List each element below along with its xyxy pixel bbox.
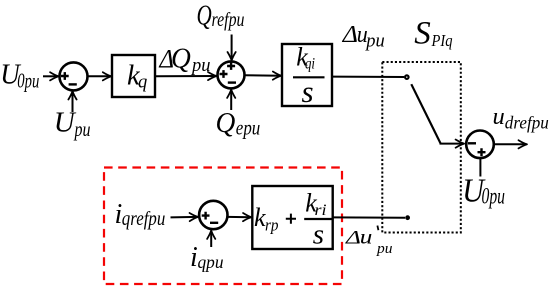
node Qepu label	[216, 107, 261, 140]
node iqpu label	[190, 242, 224, 273]
wire kq to summing junction S2, node dQpu	[156, 75, 217, 77]
svg-text:epu: epu	[236, 118, 260, 140]
node SPIq label	[414, 16, 453, 52]
svg-text:rp: rp	[265, 216, 279, 235]
node udrefpu label	[493, 103, 550, 133]
wire Upu feedback arrow into S1	[72, 92, 74, 113]
svg-text:0pu: 0pu	[17, 69, 39, 93]
svg-text:pu: pu	[364, 31, 384, 52]
S2 minus sign	[228, 81, 236, 83]
svg-text:s: s	[313, 219, 324, 251]
wire U0pu input arrow into summing junction S1	[43, 75, 58, 77]
node Upu label	[54, 107, 91, 141]
wire kqi/s to switch node A, node dupu	[333, 76, 405, 78]
svg-text:qpu: qpu	[198, 252, 224, 272]
svg-text:pu: pu	[376, 241, 393, 257]
switch blade wire	[411, 84, 440, 143]
S4 minus sign	[210, 222, 218, 224]
block kq label	[127, 61, 147, 93]
summing junction S4	[199, 201, 227, 229]
summing junction S2	[218, 61, 245, 88]
node U0pu input label	[0, 58, 39, 92]
block kqi/s numerator label	[296, 43, 315, 73]
svg-text:qi: qi	[305, 56, 315, 73]
S1 minus sign	[69, 83, 77, 85]
switch node B contact dot	[405, 215, 410, 220]
node dupu label	[342, 21, 385, 52]
svg-text:U: U	[54, 107, 77, 139]
S2 plus sign top	[227, 62, 235, 70]
block fraction bar	[304, 218, 331, 220]
S3 minus sign	[468, 142, 476, 144]
S4 plus sign	[202, 212, 210, 220]
block kq	[112, 55, 155, 97]
switch node A contact dot	[405, 75, 409, 79]
wire switch blade to summing junction S3	[440, 143, 464, 145]
block krp label part	[254, 203, 279, 234]
svg-text:s: s	[302, 74, 314, 109]
switch SPIq dotted boundary box	[382, 62, 461, 233]
node Qrefpu label	[197, 0, 245, 32]
block kri numerator label	[305, 189, 326, 219]
svg-text:pu: pu	[73, 117, 91, 141]
node dupu2 label	[345, 224, 393, 256]
wire S4 to block krp+kri/s	[228, 216, 251, 218]
wire Qepu feedback arrow into S2	[230, 90, 232, 110]
node iqrefpu label	[115, 199, 166, 230]
svg-text:PIq: PIq	[431, 31, 453, 50]
svg-text:u: u	[493, 103, 505, 130]
block krp+kri/s	[252, 186, 332, 249]
S2 plus sign left	[220, 70, 228, 78]
block plus sign	[286, 214, 296, 224]
wire iqrefpu arrow into summing junction S4	[171, 216, 198, 219]
node dQpu label	[159, 43, 211, 76]
node U0pu lower label	[462, 173, 505, 210]
svg-text:Q: Q	[171, 43, 191, 75]
svg-text:pu: pu	[190, 55, 210, 76]
wire iqpu feedback arrow into S4	[210, 231, 212, 247]
svg-text:refpu: refpu	[212, 9, 245, 31]
S3 plus sign	[478, 148, 486, 156]
svg-text:Q: Q	[216, 107, 236, 139]
resonant branch red dashed boundary box	[104, 168, 342, 285]
svg-text:Q: Q	[197, 0, 212, 32]
svg-text:u: u	[360, 224, 373, 248]
block kqi/s fraction bar	[293, 76, 325, 78]
svg-text:Δ: Δ	[342, 21, 358, 48]
svg-text:q: q	[138, 72, 147, 92]
svg-text:ri: ri	[315, 202, 327, 219]
wire krp block to switch node B, node dupu2	[333, 216, 405, 218]
S1 plus sign	[61, 72, 69, 80]
summing junction S1	[60, 62, 88, 90]
wire Qrefpu arrow into S2	[231, 35, 233, 61]
block kqi/s	[282, 44, 332, 106]
svg-text:qrefpu: qrefpu	[122, 208, 166, 230]
wire S2 to block kqi/s	[245, 74, 281, 76]
wire S3 output arrow udrefpu	[495, 143, 527, 145]
svg-text:S: S	[414, 16, 431, 52]
svg-text:Δ: Δ	[345, 227, 361, 248]
svg-text:drefpu: drefpu	[505, 113, 549, 133]
wire S1 to block kq	[88, 75, 111, 77]
wire U0pu stub into S3	[479, 159, 481, 177]
svg-text:0pu: 0pu	[482, 184, 506, 209]
summing junction S3	[466, 131, 494, 159]
